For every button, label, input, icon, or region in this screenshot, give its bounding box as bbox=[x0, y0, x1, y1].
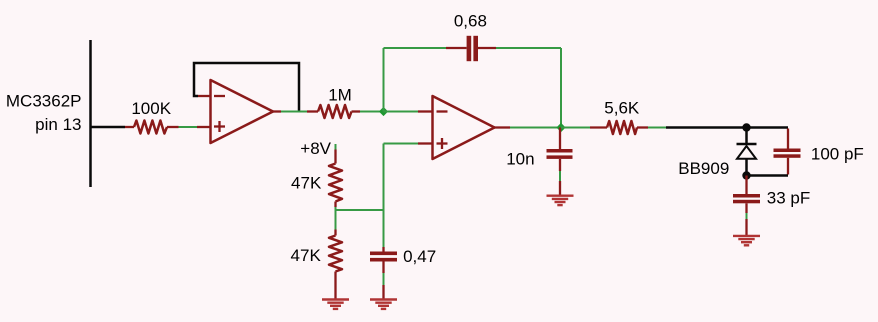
node C: top junction dot bbox=[742, 123, 750, 131]
svg-text:100 pF: 100 pF bbox=[811, 145, 864, 164]
capacitor C1 0,68 bbox=[446, 36, 496, 61]
resistor R1 100K bbox=[125, 121, 179, 134]
pin stub: U2 output bbox=[495, 126, 511, 128]
pin stub: U2 - input bbox=[418, 110, 433, 112]
node D: bottom junction dot bbox=[742, 171, 750, 179]
wire: R1 to U1 + input bbox=[179, 126, 198, 128]
wire: U1 feedback loop (output to - input) bbox=[194, 63, 299, 112]
wire: +8V supply tick bbox=[335, 144, 337, 150]
wire: feedback rail left segment bbox=[384, 47, 447, 49]
wire: input to R1 bbox=[91, 126, 126, 129]
capacitor C3 0,47 bbox=[370, 247, 397, 300]
wire: divider node to U2 + input bbox=[384, 143, 419, 145]
wire: node B to R5 bbox=[561, 127, 590, 129]
wire: node A to U2 - input bbox=[384, 111, 419, 113]
wire: feedback rail right segment bbox=[496, 47, 561, 49]
wire: U2 + input branch down to C3 bbox=[383, 144, 385, 248]
resistor R2 1M bbox=[307, 105, 360, 118]
svg-text:+8V: +8V bbox=[300, 139, 331, 158]
svg-text:0,68: 0,68 bbox=[454, 12, 487, 31]
pin stub: U1 output bbox=[273, 110, 281, 112]
node A: junction dot bbox=[379, 107, 388, 116]
resistor R3 47K bbox=[329, 150, 342, 208]
wire: R2 to node A bbox=[360, 111, 384, 113]
svg-text:0,47: 0,47 bbox=[403, 247, 436, 266]
pin stub: U1 - input bbox=[198, 95, 210, 97]
resistor R4 47K bbox=[329, 230, 342, 300]
wire: R5 green segment bbox=[648, 127, 666, 129]
op-amp U2 bbox=[433, 96, 495, 159]
svg-text:33 pF: 33 pF bbox=[767, 189, 810, 208]
svg-text:MC3362P: MC3362P bbox=[6, 92, 82, 111]
wire: U1 output to R2 bbox=[281, 111, 307, 113]
varactor D1 BB909 bbox=[737, 144, 757, 176]
wire: node A up to feedback rail bbox=[383, 48, 385, 112]
ground: under C5 bbox=[733, 236, 760, 245]
capacitor C2 10n bbox=[547, 128, 573, 196]
ground: under R4 bbox=[322, 300, 349, 309]
wire: C4 bottom to node D bbox=[747, 174, 789, 177]
wire: divider mid to cap branch bbox=[336, 209, 384, 211]
op-amp U1 bbox=[211, 80, 274, 143]
wire: U2 output to node B bbox=[510, 127, 561, 129]
svg-text:47K: 47K bbox=[291, 246, 322, 265]
capacitor C5 33 pF bbox=[733, 176, 760, 236]
pin stub: U2 + input bbox=[418, 142, 433, 144]
wire: top rail to C4 bbox=[747, 126, 789, 129]
wire: feedback rail down to output node bbox=[560, 48, 562, 128]
ground: under C3 bbox=[370, 300, 397, 309]
wire: node C down to varactor bbox=[745, 128, 748, 144]
resistor R5 5,6K bbox=[590, 121, 648, 134]
node B: output junction dot bbox=[556, 123, 565, 132]
svg-text:5,6K: 5,6K bbox=[604, 99, 640, 118]
svg-text:BB909: BB909 bbox=[678, 159, 729, 178]
ground: under C2 bbox=[547, 196, 574, 205]
node: input bus line (MC3362P pin 13) bbox=[89, 40, 92, 187]
capacitor C4 100 pF bbox=[774, 129, 801, 175]
svg-text:100K: 100K bbox=[131, 99, 171, 118]
wire: divider mid vertical bbox=[335, 207, 337, 230]
svg-text:47K: 47K bbox=[291, 174, 322, 193]
pin stub: U1 + input bbox=[197, 126, 210, 128]
svg-text:1M: 1M bbox=[328, 86, 352, 105]
svg-text:pin 13: pin 13 bbox=[35, 115, 81, 134]
svg-text:10n: 10n bbox=[506, 150, 534, 169]
wire: R5 to varactor node (black) bbox=[666, 126, 747, 129]
